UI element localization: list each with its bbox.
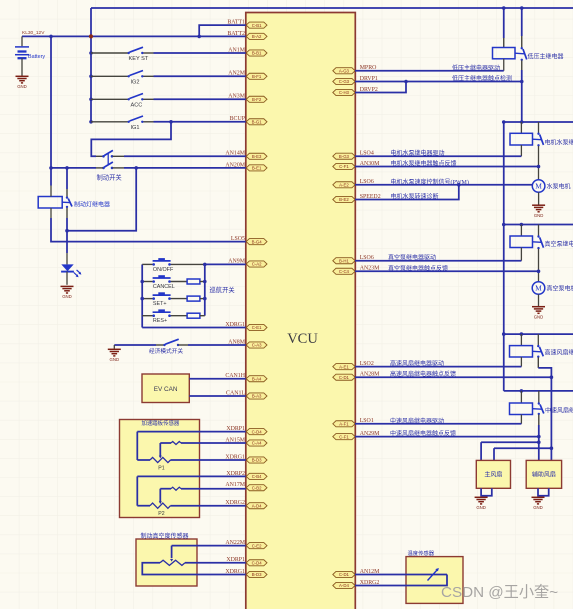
wire: IG2 switch to VCU pin: [154, 75, 246, 77]
svg-text:C-B4: C-B4: [252, 474, 262, 479]
wire: K5 output to fans: [538, 425, 540, 460]
relay K1 contact: [521, 47, 527, 61]
resistor R2 cruise SET+: [187, 296, 200, 301]
wire: K1 output down to pump section: [521, 70, 523, 122]
svg-text:GND: GND: [110, 357, 120, 362]
junction: cruise right bus: [203, 297, 207, 301]
svg-text:电机水泵继电器触点反馈: 电机水泵继电器触点反馈: [391, 160, 457, 168]
relay K5 contact: [538, 402, 544, 415]
wire: cruise left bus: [141, 264, 143, 327]
link: K2 coil to blade: [533, 138, 542, 141]
junction: LED branch tap: [65, 229, 69, 233]
switch S5 brake switch pole 2: [102, 153, 113, 169]
wire: IG1 switch to VCU pin: [154, 121, 246, 123]
wire: DRVP2 sense: [355, 82, 406, 93]
svg-text:BATT2: BATT2: [227, 31, 245, 37]
ground: economy switch GND: [108, 349, 121, 356]
wire: brake sw pole2 to AN20M pin: [124, 167, 246, 169]
wire: ignition feed bus (x=91): [90, 8, 92, 122]
junction: BATT1 tap on KL30 rail: [197, 35, 201, 39]
relay K3 coil 真空泵继电器: [510, 236, 533, 248]
svg-text:CANCEL: CANCEL: [153, 284, 175, 290]
wire: K4 coil to LSO2: [520, 357, 522, 367]
junction: IG1 branch tap: [169, 120, 173, 124]
wire: BATT1 stub: [199, 25, 246, 36]
thermistor RT1: [428, 568, 439, 581]
svg-text:电机水泵转速诊断: 电机水泵转速诊断: [391, 193, 439, 201]
svg-text:GND: GND: [476, 505, 486, 510]
svg-text:水泵电机: 水泵电机: [547, 183, 571, 191]
pushbutton SET+ (cruise): [152, 294, 170, 300]
wire: ACC switch to VCU pin: [154, 98, 246, 100]
wire: feed to K1 contact: [521, 8, 523, 36]
svg-text:B-G4: B-G4: [252, 239, 263, 244]
svg-text:C-F1: C-F1: [339, 434, 349, 439]
svg-text:AN2M: AN2M: [228, 71, 245, 77]
svg-text:AN3M: AN3M: [228, 94, 245, 100]
wire: resistor to right bus: [200, 315, 205, 317]
svg-text:低压主继电器: 低压主继电器: [528, 52, 564, 60]
svg-text:B-E2: B-E2: [339, 197, 349, 202]
junction: K5 coil feed: [520, 389, 524, 393]
wire: mid fan output to main fan: [481, 441, 539, 443]
resistor: P1 wiper series zigzag: [171, 442, 181, 445]
link: K4 coil to blade: [533, 350, 542, 353]
wire: P1 wiper drop: [159, 443, 161, 457]
svg-text:AN9M: AN9M: [228, 258, 245, 264]
wire: brake relay switch branch: [66, 168, 68, 189]
wire: K1 contact out stub: [521, 60, 523, 70]
wire: AN30M feedback: [355, 166, 539, 168]
pushbutton CANCEL (cruise): [152, 277, 170, 283]
svg-text:GND: GND: [534, 213, 544, 218]
pin B-G4 (LSO5): [246, 239, 267, 245]
wire: KEY ST switch to VCU pin: [154, 52, 246, 54]
wire: CAN1H: [189, 378, 246, 380]
sensor: brake vacuum (制动真空度传感器) box: [136, 539, 197, 586]
wire: coil bottom lead: [50, 208, 52, 218]
junction: DRVP2/DRVP1 tie: [404, 80, 408, 84]
svg-text:LSO5: LSO5: [231, 236, 245, 242]
wire: K2 contact feed stub: [538, 122, 540, 133]
pin B-A2 (BATT2): [246, 33, 267, 39]
wire: cruise right bus: [204, 264, 206, 315]
wire: K3 coil feed stub: [520, 225, 522, 237]
svg-text:B-A4: B-A4: [252, 376, 262, 381]
wire: bus to IG2 switch: [91, 75, 128, 77]
ground: vacuum motor GND: [532, 307, 545, 314]
pin A-E1 (LSO2): [333, 364, 355, 370]
svg-text:C-D4: C-D4: [252, 561, 263, 566]
pin A-F1 (LSO1): [333, 421, 355, 427]
svg-text:真空泵继电器驱动: 真空泵继电器驱动: [388, 254, 436, 262]
wire: LED anode branch: [66, 231, 68, 253]
svg-text:真空泵电机: 真空泵电机: [547, 285, 573, 293]
pin C-B1 (BATT1): [246, 22, 267, 28]
pin A-G3 (MPRO): [333, 68, 355, 74]
wire: top 12V feed rail: [91, 7, 573, 9]
svg-text:M: M: [535, 182, 542, 191]
junction: bus tap IG1: [89, 120, 93, 124]
svg-text:C-D4: C-D4: [252, 429, 263, 434]
junction: brake loop right leg: [134, 166, 138, 170]
pin C-D1 (AN12M): [333, 571, 355, 577]
wire: main fan left terminal: [480, 442, 482, 460]
junction: cruise left bus: [140, 297, 144, 301]
wire: AN29M feedback: [355, 436, 539, 438]
svg-text:BATT1: BATT1: [227, 20, 245, 26]
junction: SPEED2 on PWM line: [457, 183, 461, 187]
svg-text:KL30_12V: KL30_12V: [22, 30, 45, 36]
relay K5 coil 中速风扇继电器: [510, 403, 533, 415]
svg-text:中速风扇继电器: 中速风扇继电器: [545, 407, 573, 415]
pin B-H1 (LSO6): [333, 258, 355, 264]
resistor: vacuum sensor track: [160, 560, 185, 565]
svg-text:低压主继电器驱动: 低压主继电器驱动: [452, 64, 500, 72]
wire: AN9M to pin: [205, 263, 246, 265]
ground: aux fan GND: [532, 497, 545, 504]
wire: cruise bus to ON/OFF: [142, 263, 154, 265]
svg-text:B-G1: B-G1: [252, 120, 263, 125]
wire: K1 coil to MPRO: [503, 59, 505, 71]
wire: KL30/BATT2 rail to pin B-A2: [22, 35, 246, 37]
svg-text:C-H3: C-H3: [339, 90, 350, 95]
potentiometer P2 wiper: [160, 488, 171, 490]
svg-text:高速风扇继电器触点反馈: 高速风扇继电器触点反馈: [390, 370, 456, 378]
wire: LSO4 drive: [355, 155, 521, 157]
svg-text:A-G3: A-G3: [339, 68, 350, 73]
wire: battery top lead: [21, 36, 23, 46]
svg-text:制动灯继电器: 制动灯继电器: [74, 201, 110, 209]
svg-text:B-F2: B-F2: [252, 97, 262, 102]
wire: resistor to right bus: [200, 281, 205, 283]
pin A-D4 (XDRG2): [246, 503, 267, 509]
sensor: accelerator pedal (加速踏板传感器) box: [120, 420, 200, 518]
wire: relay contact lower stub: [66, 208, 68, 218]
wire: bus to IG1 switch: [91, 121, 128, 123]
svg-text:温度传感器: 温度传感器: [408, 549, 435, 557]
wire: K1 coil feed stub: [503, 38, 505, 48]
svg-text:GND: GND: [17, 84, 27, 89]
svg-text:辅助风扇: 辅助风扇: [532, 471, 556, 479]
svg-text:B-D3: B-D3: [252, 458, 262, 463]
junction: AN30M on pump feed: [537, 165, 541, 169]
svg-text:AN1M: AN1M: [228, 47, 245, 53]
pin C-H3 (DRVP2): [333, 89, 355, 95]
wire: K5 coil to LSO1: [520, 415, 522, 424]
svg-text:IG2: IG2: [131, 80, 140, 86]
wire: econ out stub: [179, 344, 189, 346]
resistor R1 cruise CANCEL: [187, 279, 200, 284]
wire: ACC switch out stub: [142, 98, 153, 100]
svg-text:中速风扇继电器触点反馈: 中速风扇继电器触点反馈: [390, 430, 456, 438]
wire: K3 coil to LSO6: [520, 248, 522, 261]
wire: resistor to right bus: [200, 298, 205, 300]
battery B1: [15, 47, 29, 58]
wire: AN12M to thermistor: [355, 574, 447, 576]
junction: H1 on mid fan output: [537, 440, 541, 444]
svg-text:中速风扇继电器驱动: 中速风扇继电器驱动: [390, 417, 444, 425]
pin B-D3 (XDRG1): [246, 457, 267, 463]
LED D1 brake indicator: [61, 264, 81, 277]
junction: H2 on high fan output: [550, 446, 554, 450]
ground: battery GND: [16, 76, 29, 83]
svg-text:CSDN @王小奎~: CSDN @王小奎~: [441, 584, 558, 601]
relay K4 coil 高速风扇继电器: [510, 346, 533, 357]
svg-text:C-F1: C-F1: [339, 164, 349, 169]
switch S4 IG1: [128, 116, 144, 123]
pin B-D3 (XDRG1): [246, 571, 267, 577]
wire: relay contact down leg: [66, 218, 68, 231]
wire: main fan ground legs: [480, 488, 482, 496]
wire: high fan section feed rail: [504, 333, 573, 335]
pin C-E1 (XDRG1): [246, 324, 267, 330]
svg-text:A-E1: A-E1: [339, 364, 349, 369]
wire: pump section feed rail: [504, 121, 573, 123]
wire: cruise bus to SET+: [142, 298, 154, 300]
wire: P2 wiper drop: [159, 489, 161, 503]
pin C-D1 (AN28M): [333, 374, 355, 380]
pin B-F1 (AN2M): [246, 73, 267, 79]
svg-text:AN8M: AN8M: [228, 339, 245, 345]
svg-text:A-F1: A-F1: [339, 422, 349, 427]
wire: IG1 branch to brake switch: [91, 122, 171, 157]
pin C-F1 (AN30M): [333, 163, 355, 169]
resistor: P2 wiper series zigzag: [171, 487, 181, 490]
pin B-G1 (BCUP): [246, 119, 267, 125]
wire: KL30 bus (x=51) upper: [50, 36, 52, 185]
wire: high fan relay drive: [355, 366, 521, 368]
wire: vacuum XDRG1: [142, 563, 246, 575]
wire: SET+ to resistor: [170, 298, 188, 300]
wire: K2 coil feed stub: [520, 122, 522, 133]
svg-text:B-E1: B-E1: [252, 166, 262, 171]
wire: IG1 switch out stub: [142, 121, 153, 123]
wire: ON/OFF to right bus: [170, 263, 205, 265]
resistor R3 cruise RES+: [187, 313, 200, 318]
link: K6 coil to blade: [62, 201, 69, 203]
svg-text:XDRG1: XDRG1: [225, 454, 245, 460]
wire: mid fan relay drive: [355, 423, 521, 425]
svg-text:A-D4: A-D4: [252, 503, 262, 508]
wire: XDRG2 return: [355, 575, 447, 586]
junction: cruise right bus: [203, 280, 207, 284]
svg-text:P1: P1: [158, 465, 164, 471]
svg-text:C-G3: C-G3: [339, 79, 350, 84]
wire: brake loop bottom: [67, 168, 136, 231]
wire: K3 output to motor: [538, 249, 540, 282]
svg-text:真空泵继电器触点反馈: 真空泵继电器触点反馈: [388, 264, 448, 272]
junction: KL30 rail / ignition bus: [89, 34, 93, 38]
wire: econ switch to AN8M pin: [188, 344, 246, 346]
wire: SPEED2 diag: [355, 185, 459, 200]
potentiometer P1 wiper: [160, 442, 171, 444]
wire: LED cathode lead: [66, 272, 68, 285]
wire: K4 coil feed stub: [520, 334, 522, 346]
svg-text:C-A3: C-A3: [252, 343, 262, 348]
wire: vacuum sensor wiper AN22M: [172, 545, 246, 547]
svg-text:XDRG1: XDRG1: [225, 322, 245, 328]
junction: KL30 bus / brake pole2: [49, 166, 53, 170]
wire: brake pole2 out stub: [113, 167, 125, 169]
wire: feed to K1 coil: [503, 8, 505, 38]
svg-text:XDRP2: XDRP2: [226, 471, 245, 477]
wire: K1 contact feed stub: [521, 36, 523, 48]
junction: pump coil feed: [520, 120, 524, 124]
wire: K5 contact feed stub: [538, 391, 540, 403]
svg-text:制动开关: 制动开关: [97, 173, 123, 182]
svg-text:电机水泵继电器驱动: 电机水泵继电器驱动: [391, 149, 445, 157]
svg-text:B-E3: B-E3: [252, 154, 262, 159]
wire: KL30 bus to brake sw pole2: [51, 167, 96, 169]
wire: P1 left leg: [136, 432, 138, 460]
junction: brake light relay tap: [65, 166, 69, 170]
svg-text:ACC: ACC: [131, 103, 143, 109]
svg-text:SET+: SET+: [153, 301, 167, 307]
svg-text:主风扇: 主风扇: [484, 471, 502, 479]
sensor: temperature (温度传感器) box: [406, 557, 463, 604]
svg-text:C-B1: C-B1: [252, 23, 262, 28]
pushbutton RES+ (cruise): [152, 311, 170, 317]
junction: K3 coil feed: [520, 223, 524, 227]
switch S2 IG2: [128, 71, 144, 78]
svg-text:高速风扇继电器: 高速风扇继电器: [545, 349, 573, 357]
svg-text:C-C4: C-C4: [339, 269, 350, 274]
wire: pump motor to GND: [538, 192, 540, 204]
pin B-E1 (AN20M): [246, 165, 267, 171]
wire: CANCEL to resistor: [170, 281, 188, 283]
svg-text:B-F1: B-F1: [252, 74, 262, 79]
ground: pump motor GND: [532, 205, 545, 212]
junction: K4 coil feed: [520, 332, 524, 336]
svg-text:AN15M: AN15M: [225, 437, 245, 443]
svg-text:加速踏板传感器: 加速踏板传感器: [142, 419, 180, 427]
svg-text:CAN1H: CAN1H: [225, 373, 245, 379]
relay K4 contact: [537, 345, 543, 358]
VCU block U1: [246, 13, 355, 612]
svg-text:RES+: RES+: [153, 318, 167, 324]
svg-text:XDRP1: XDRP1: [226, 426, 245, 432]
svg-text:VCU: VCU: [287, 331, 318, 347]
pin C-A4 (AN15M): [246, 440, 267, 446]
svg-text:高速风扇继电器驱动: 高速风扇继电器驱动: [390, 360, 444, 368]
pin B-A4 (CAN1H): [246, 376, 267, 382]
svg-text:EV CAN: EV CAN: [154, 386, 178, 393]
wire: K4 output to fans: [537, 357, 539, 368]
junction: DRVP1 on K1 output: [520, 80, 524, 84]
pin C-E2 (AN22M): [246, 543, 267, 549]
wire: P2 left leg: [136, 476, 138, 505]
svg-text:GND: GND: [62, 294, 72, 299]
potentiometer P2 top wire: [137, 475, 246, 477]
pin A-E2 (LSO6): [333, 182, 355, 188]
svg-text:GND: GND: [533, 505, 543, 510]
svg-text:AN20M: AN20M: [225, 162, 245, 168]
svg-text:P2: P2: [158, 511, 164, 517]
svg-text:KEY ST: KEY ST: [129, 56, 149, 62]
module EV CAN: [142, 374, 189, 403]
wire: vacuum wiper drop: [171, 546, 173, 559]
wire: cruise common XDRG1 to pin: [142, 327, 246, 329]
svg-text:IG1: IG1: [131, 125, 140, 131]
svg-text:B-A2: B-A2: [252, 34, 262, 39]
wire: LSO6 PWM to motor: [355, 184, 532, 186]
wire: K4 contact feed stub: [537, 334, 539, 345]
svg-text:C-A2: C-A2: [252, 262, 262, 267]
junction: feed bus / vacuum rail: [502, 223, 506, 227]
wire: MPRO drive: [355, 70, 504, 72]
junction: AN29M on mid fan output: [537, 435, 541, 439]
wire: econ GND side: [114, 344, 156, 346]
wire: aux fan ground legs: [537, 488, 539, 496]
wire: IG2 switch out stub: [142, 75, 153, 77]
pin B-F2 (AN3M): [246, 96, 267, 102]
ground: main fan GND: [475, 497, 488, 504]
wire: KEY ST switch out stub: [142, 52, 153, 54]
svg-text:GND: GND: [534, 315, 544, 320]
svg-text:ON/OFF: ON/OFF: [153, 267, 174, 273]
svg-text:电机水泵继电器: 电机水泵继电器: [545, 139, 573, 147]
wire: vacuum relay drive: [355, 260, 521, 262]
junction: feed bus / high fan rail: [502, 332, 506, 336]
svg-text:XDRP1: XDRP1: [226, 557, 245, 563]
junction: cruise left bus: [140, 280, 144, 284]
wire: K5 contact out stub: [538, 415, 540, 426]
svg-text:C-A4: C-A4: [252, 441, 262, 446]
resistor: P1 track: [150, 457, 171, 462]
pin C-F1 (AN29M): [333, 434, 355, 440]
junction: AN28M on high fan output: [550, 375, 554, 379]
svg-text:AN17M: AN17M: [225, 482, 245, 488]
svg-text:C-D1: C-D1: [339, 375, 350, 380]
svg-text:A-D4: A-D4: [339, 583, 349, 588]
svg-text:A-E2: A-E2: [339, 183, 349, 188]
pin C-A3 (AN8M): [246, 342, 267, 348]
wire: bus to KEY ST switch: [91, 52, 128, 54]
wire: bus to ACC switch: [91, 98, 128, 100]
relay K3 contact: [537, 235, 543, 249]
svg-text:BCUP: BCUP: [230, 116, 246, 122]
svg-text:制动真空度传感器: 制动真空度传感器: [141, 532, 189, 540]
potentiometer P1 top wire: [137, 431, 246, 433]
svg-text:C-D1: C-D1: [339, 572, 350, 577]
wire: DRVP1 sense: [355, 81, 522, 83]
wire: brake pole1 out stub: [113, 155, 125, 157]
wire: K5 coil feed stub: [520, 391, 522, 403]
wire: mid fan section feed rail: [504, 390, 573, 392]
pin C-A2 (AN9M): [246, 261, 267, 267]
wire: vacuum section feed rail: [504, 224, 573, 226]
wire: econ gnd stub: [113, 345, 115, 349]
switch S6 economy mode (经济模式开关): [163, 339, 179, 346]
pin C-D4 (XDRP1): [246, 429, 267, 435]
svg-text:C-E1: C-E1: [252, 325, 262, 330]
wire: main fan right terminal: [493, 448, 495, 460]
wire: brake sw pole1 to AN14M pin: [124, 155, 246, 157]
wire: long feed bus (x=503.75): [503, 122, 505, 391]
pin C-B2 (AN17M): [246, 485, 267, 491]
wire: vacuum XDRP1: [185, 562, 246, 564]
fan FAN2 辅助风扇 box: [526, 460, 561, 488]
pin B-G3 (LSO4): [333, 153, 355, 159]
wire: K2 coil to LSO4: [520, 145, 522, 156]
svg-text:AN22M: AN22M: [225, 540, 245, 546]
junction: cruise output / AN9M: [203, 263, 207, 267]
pin A-D4 (XDRG2): [333, 582, 355, 588]
wire: vacuum motor to GND: [538, 294, 540, 306]
wire: K2 output to motor: [538, 146, 540, 180]
svg-text:B-G3: B-G3: [339, 154, 350, 159]
